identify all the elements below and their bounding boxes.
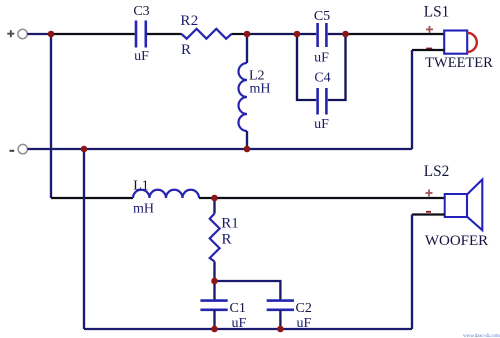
woofer + mark xyxy=(426,190,433,197)
wire: L2 bottom lead xyxy=(246,131,248,149)
wire: junction A to C3 xyxy=(51,33,135,35)
svg-text:C2: C2 xyxy=(296,301,312,316)
svg-text:www.dzsc-dz.com: www.dzsc-dz.com xyxy=(463,334,500,338)
capacitor C4 xyxy=(318,88,327,115)
input + symbol xyxy=(7,30,14,37)
junction dot: below R1 xyxy=(211,278,218,285)
tweeter + mark xyxy=(426,26,433,33)
junction dot: after L1 xyxy=(211,195,218,202)
svg-text:uF: uF xyxy=(314,117,329,132)
input - symbol xyxy=(10,150,15,152)
junction dot: C1 bottom xyxy=(211,326,218,333)
svg-text:LS2: LS2 xyxy=(424,163,450,180)
wire: L1 to junction E xyxy=(199,197,215,199)
wire: + terminal to junction A xyxy=(27,33,51,35)
junction dot: minus rail left xyxy=(81,146,88,153)
svg-text:L1: L1 xyxy=(133,178,149,193)
resistor R2 xyxy=(182,29,232,39)
svg-text:mH: mH xyxy=(133,202,154,217)
wire: left return vertical xyxy=(83,149,85,329)
wire: junction B to junction C xyxy=(247,33,297,35)
wire: C3 to R2 xyxy=(147,33,182,35)
junction dot: after R2 xyxy=(244,31,251,38)
junction dot: C2 bottom xyxy=(277,326,284,333)
woofer cone xyxy=(467,180,482,231)
tweeter - mark xyxy=(426,48,432,50)
svg-text:R2: R2 xyxy=(180,13,198,29)
svg-text:C1: C1 xyxy=(230,301,246,316)
wire: R1 bottom lead xyxy=(213,262,215,282)
svg-text:C4: C4 xyxy=(314,71,330,86)
svg-text:uF: uF xyxy=(134,49,149,64)
svg-text:TWEETER: TWEETER xyxy=(425,55,493,71)
woofer - mark xyxy=(426,211,431,213)
inductor L1 xyxy=(133,190,199,198)
capacitor C3 xyxy=(136,21,146,48)
speaker LS1 (tweeter) body xyxy=(444,31,467,54)
capacitor C5 xyxy=(318,23,327,47)
wire: C1 to bottom rail xyxy=(213,310,215,329)
junction dot: L2 bottom xyxy=(244,146,251,153)
svg-text:R: R xyxy=(181,42,191,58)
wire: C4 branch right riser xyxy=(328,34,346,100)
svg-text:C3: C3 xyxy=(133,4,149,19)
wire: R1 top lead xyxy=(213,198,215,214)
resistor R1 xyxy=(210,214,220,262)
wire: junction D to tweeter + xyxy=(346,33,445,35)
svg-text:R: R xyxy=(221,232,231,248)
svg-text:uF: uF xyxy=(314,51,329,66)
wire: minus rail xyxy=(28,148,413,150)
tweeter dome arc xyxy=(467,33,477,52)
inductor L2 xyxy=(239,63,247,131)
wire: plus feed vertical xyxy=(50,34,52,198)
capacitor C2 xyxy=(267,301,294,310)
svg-text:mH: mH xyxy=(250,82,271,97)
wire: junction C to C5 left plate xyxy=(297,33,316,35)
wire: C5 right plate to junction D xyxy=(328,33,346,35)
wire: bottom rail xyxy=(84,328,412,330)
wire: C4 branch left drop xyxy=(297,34,316,100)
input + terminal circle xyxy=(18,29,27,38)
junction dot: + input xyxy=(48,31,55,38)
svg-text:WOOFER: WOOFER xyxy=(425,233,488,249)
svg-text:LS1: LS1 xyxy=(424,4,450,21)
input - terminal circle xyxy=(18,144,27,153)
svg-text:R1: R1 xyxy=(221,216,239,232)
wire: junction F to C2 branch xyxy=(215,281,281,300)
wire: C2 to bottom rail xyxy=(279,310,281,329)
wire: junction F to C1 xyxy=(213,281,215,300)
wire: feed to L1 xyxy=(51,197,133,199)
wire: tweeter - stub xyxy=(412,49,445,51)
junction dot: C5/C4 right xyxy=(342,31,349,38)
wire: L2 top lead xyxy=(246,34,248,63)
wire: woofer - vertical drop xyxy=(411,215,413,330)
speaker LS2 (woofer) body xyxy=(445,194,467,217)
wire: tweeter - vertical drop xyxy=(411,50,413,149)
wire: R2 to junction B xyxy=(231,33,247,35)
capacitor C1 xyxy=(200,301,227,310)
junction dot: C5/C4 left xyxy=(294,31,301,38)
svg-text:C5: C5 xyxy=(314,9,330,24)
wire: junction E to woofer + xyxy=(215,197,446,199)
wire: woofer - stub xyxy=(412,213,445,215)
